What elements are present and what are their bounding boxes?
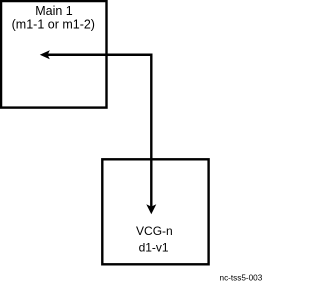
box VCG-n	[102, 159, 208, 264]
arrowhead down into VCG-n	[146, 204, 156, 214]
box Main 1	[1, 1, 106, 108]
svg-text:nc-tss5-003: nc-tss5-003	[220, 274, 263, 283]
svg-text:d1-v1: d1-v1	[139, 241, 169, 255]
svg-text:VCG-n: VCG-n	[136, 224, 173, 238]
svg-text:(m1-1 or m1-2): (m1-1 or m1-2)	[12, 17, 95, 31]
arrowhead left into Main 1	[40, 50, 50, 59]
wire vertical segment	[150, 54, 152, 207]
wire horizontal segment	[46, 53, 153, 56]
svg-text:Main 1: Main 1	[35, 4, 73, 18]
